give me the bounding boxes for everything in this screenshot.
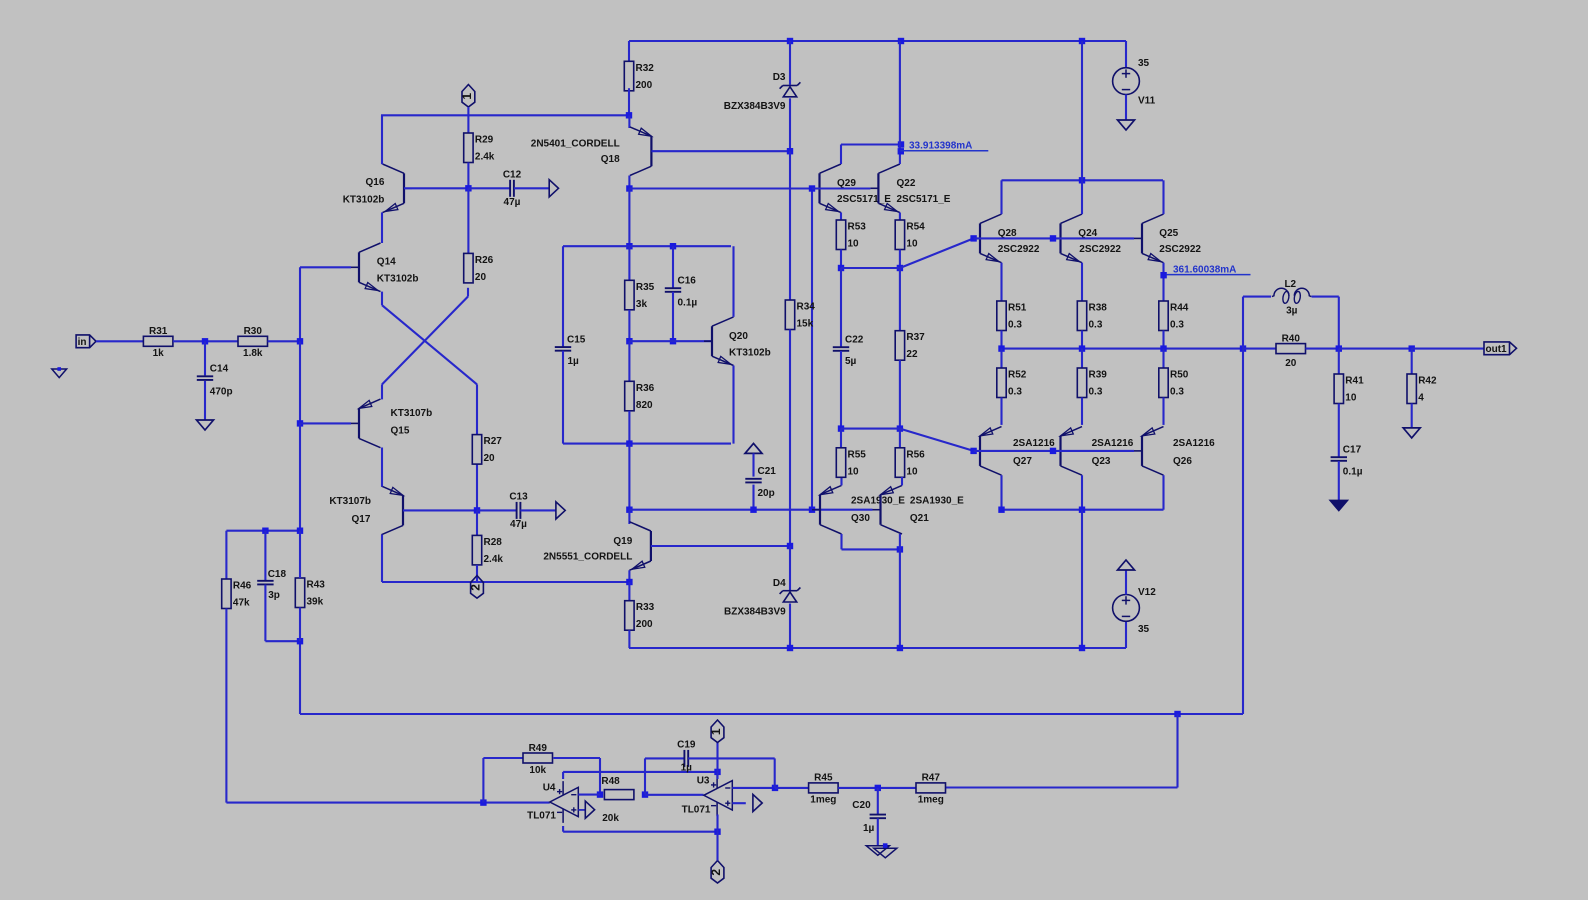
svg-text:47µ: 47µ xyxy=(504,197,521,208)
net flag 2 xyxy=(469,576,484,599)
zener diode D3 xyxy=(724,72,801,112)
node Q18 base / D3 xyxy=(787,148,793,154)
resistor R54 xyxy=(895,220,925,250)
wire R26 top xyxy=(467,188,469,253)
wire bottom row to Q19 xyxy=(382,581,629,583)
wire Q15 collector drop xyxy=(381,448,383,487)
current annotation anchor xyxy=(898,148,904,154)
svg-text:15k: 15k xyxy=(797,319,814,330)
svg-text:2SA1216: 2SA1216 xyxy=(1173,438,1215,449)
wire R41 top xyxy=(1338,349,1340,374)
wire Q14 emitter drop xyxy=(381,292,383,306)
svg-text:2: 2 xyxy=(469,584,483,591)
svg-text:Q20: Q20 xyxy=(729,331,748,342)
svg-text:R47: R47 xyxy=(922,773,941,784)
voltage source V11 xyxy=(1113,58,1156,107)
svg-text:Q14: Q14 xyxy=(377,257,396,268)
wire R36 bottom xyxy=(628,411,630,444)
svg-text:V11: V11 xyxy=(1138,96,1156,107)
wire R56 bottom to Q21 emitter xyxy=(901,477,903,485)
svg-text:200: 200 xyxy=(636,619,653,630)
svg-text:C18: C18 xyxy=(268,569,287,580)
wire Q17 collector drop xyxy=(381,535,383,582)
node C22 bottom xyxy=(838,425,844,431)
wire VAS drive upper xyxy=(629,187,812,189)
svg-text:1.8k: 1.8k xyxy=(243,348,263,359)
node U4 out / R49 xyxy=(480,799,486,805)
transistor Q16 xyxy=(343,164,412,213)
svg-text:2SA1216: 2SA1216 xyxy=(1013,438,1055,449)
wire flag2 stem xyxy=(716,832,718,861)
ground C20 b (offset duplicate) xyxy=(874,848,897,858)
wire R51 bottom xyxy=(1000,331,1002,349)
node Q17 base / C13 xyxy=(474,507,480,513)
wire C22-R37 link xyxy=(841,428,900,430)
wire Q29 collector riser xyxy=(840,145,842,165)
svg-text:2SC2922: 2SC2922 xyxy=(998,244,1040,255)
node input RC xyxy=(202,338,208,344)
wire xyxy=(173,340,238,342)
svg-text:R56: R56 xyxy=(906,449,925,460)
wire R44 bottom xyxy=(1162,331,1164,349)
svg-text:R46: R46 xyxy=(233,581,252,592)
node Q23 base xyxy=(1050,448,1056,454)
wire C12 left xyxy=(468,187,510,189)
resistor R43 xyxy=(295,578,325,608)
svg-text:Q23: Q23 xyxy=(1092,456,1111,467)
wire R40 right xyxy=(1306,348,1339,350)
svg-text:C16: C16 xyxy=(678,276,697,287)
svg-text:KT3107b: KT3107b xyxy=(329,496,371,507)
wire R34-D4 xyxy=(789,330,791,547)
wire C15 lower xyxy=(562,351,564,444)
svg-text:1k: 1k xyxy=(153,348,165,359)
wire Q30-Q21 collector link xyxy=(842,548,900,550)
svg-text:C22: C22 xyxy=(845,335,864,346)
wire R32 bottom xyxy=(628,88,630,115)
wire C19 left riser xyxy=(644,758,646,794)
wire Q29 collector horiz xyxy=(841,143,901,145)
resistor R46 xyxy=(222,579,252,609)
node Vbe bottom xyxy=(626,440,632,446)
svg-text:0.3: 0.3 xyxy=(1089,387,1103,398)
resistor R33 xyxy=(625,601,655,631)
node D3 top xyxy=(787,38,793,44)
transistor Q19 xyxy=(543,522,659,571)
svg-text:10: 10 xyxy=(1345,393,1357,404)
wire D3 to Q18 base node xyxy=(789,98,791,151)
wire V12 stem bottom xyxy=(1125,621,1127,648)
svg-text:R31: R31 xyxy=(149,326,168,337)
wire R39 top xyxy=(1081,349,1083,368)
resistor R41 xyxy=(1334,374,1364,404)
wire V+ row to flag1 xyxy=(563,771,717,773)
wire R28 bottom xyxy=(476,565,478,582)
svg-text:0.1µ: 0.1µ xyxy=(678,298,698,309)
wire L2 right xyxy=(1312,296,1339,298)
svg-text:361.60038mA: 361.60038mA xyxy=(1173,264,1236,275)
resistor R34 xyxy=(785,300,815,330)
wire R54 bottom xyxy=(899,250,901,269)
node Q27 base xyxy=(970,448,976,454)
svg-text:BZX384B3V9: BZX384B3V9 xyxy=(724,101,786,112)
wire output node rail xyxy=(1002,348,1244,350)
svg-text:10: 10 xyxy=(906,239,918,250)
voltage source V12 xyxy=(1113,587,1157,635)
svg-text:3k: 3k xyxy=(636,299,648,310)
wire drive diagonal to Q27 base xyxy=(900,429,974,451)
wire crossover right drop xyxy=(476,384,478,434)
resistor R50 xyxy=(1159,368,1189,398)
svg-text:1µ: 1µ xyxy=(863,823,875,834)
node Q19 emitter xyxy=(626,579,632,585)
wire R53-R54 link xyxy=(841,267,900,269)
wire crossover diagonal A xyxy=(382,305,477,384)
wire R32 top xyxy=(628,41,630,61)
svg-text:C14: C14 xyxy=(210,364,229,375)
junction (1001.5,348.6) xyxy=(998,345,1004,351)
wire V11 stem top xyxy=(1125,41,1127,68)
zener diode D4 xyxy=(724,578,800,618)
wire Q23 collector xyxy=(1081,475,1083,510)
svg-text:2: 2 xyxy=(709,869,723,876)
wire base rail lower bank xyxy=(974,450,1134,452)
svg-text:1: 1 xyxy=(460,93,474,100)
svg-text:2SA1930_E: 2SA1930_E xyxy=(910,496,964,507)
resistor R47 xyxy=(916,773,946,806)
wire output bank vplus xyxy=(1002,179,1164,181)
svg-text:R52: R52 xyxy=(1008,370,1027,381)
svg-text:47µ: 47µ xyxy=(510,519,527,530)
wire U3 V- drop xyxy=(716,815,718,832)
svg-text:R43: R43 xyxy=(307,580,326,591)
op-amp U4 xyxy=(550,781,586,823)
svg-text:1: 1 xyxy=(709,728,723,735)
capacitor C12 xyxy=(503,169,522,208)
wire U4 V+ riser xyxy=(562,772,564,779)
svg-text:Q16: Q16 xyxy=(365,177,384,188)
svg-text:470p: 470p xyxy=(210,387,233,398)
svg-text:out1: out1 xyxy=(1486,344,1508,355)
wire Q16 collector riser xyxy=(381,115,383,164)
wire U4 V- drop xyxy=(562,826,564,832)
wire base link Q29-Q22 xyxy=(812,187,870,189)
wire U3 +in flag stub xyxy=(732,802,746,804)
node R32/Q18 xyxy=(626,112,632,118)
node servo return xyxy=(1174,711,1180,717)
ground C21 (up) xyxy=(745,443,762,453)
wire R46 top stub xyxy=(225,531,227,579)
wire bottom vminus rail xyxy=(629,647,1126,649)
wire R52 top xyxy=(1000,349,1002,368)
wire R33 bottom xyxy=(628,630,630,648)
transistor Q14 xyxy=(351,243,418,292)
resistor R27 xyxy=(472,435,502,465)
wire Q20 collector xyxy=(732,246,734,317)
node R53/C22 xyxy=(838,265,844,271)
wire R43 top stub xyxy=(299,531,301,578)
wire Q18 base to D3 xyxy=(651,150,790,152)
svg-text:V12: V12 xyxy=(1138,587,1156,598)
wire C18 bottom stub xyxy=(264,585,266,642)
arrow net flag xyxy=(585,801,594,818)
svg-text:3p: 3p xyxy=(268,590,280,601)
node C18 top xyxy=(262,528,268,534)
node Q16 base / C12 xyxy=(465,185,471,191)
svg-text:10: 10 xyxy=(848,239,860,250)
wire C21 lower stem xyxy=(752,485,754,510)
svg-text:KT3102b: KT3102b xyxy=(377,273,419,284)
wire U4 +in flag stub xyxy=(578,809,585,811)
node Q24 base xyxy=(1050,235,1056,241)
ground C14 xyxy=(197,420,214,430)
node Q21 collector xyxy=(897,546,903,552)
svg-text:R50: R50 xyxy=(1170,370,1189,381)
wire R55 top xyxy=(840,429,842,448)
wire crossover diagonal B xyxy=(382,297,468,385)
wire C18 top stub xyxy=(264,531,266,581)
svg-text:R44: R44 xyxy=(1170,303,1189,314)
svg-text:L2: L2 xyxy=(1284,279,1296,290)
node Q18 collector xyxy=(626,185,632,191)
wire C19 left xyxy=(645,757,684,759)
svg-text:C13: C13 xyxy=(509,491,528,502)
svg-text:U3: U3 xyxy=(697,776,710,787)
net flag 2 xyxy=(709,861,724,884)
wire Q16/Q14 link xyxy=(381,212,383,243)
wire top vplus rail xyxy=(629,40,1126,42)
arrow net flag xyxy=(753,794,762,811)
wire to D4 xyxy=(789,546,791,590)
svg-text:R55: R55 xyxy=(848,449,867,460)
wire R48 to U3 apex xyxy=(645,794,704,796)
svg-text:C12: C12 xyxy=(503,169,522,180)
wire R41-C17 xyxy=(1338,404,1340,458)
current annotation 33.913398mA xyxy=(900,140,988,151)
svg-text:R32: R32 xyxy=(636,63,655,74)
resistor R45 xyxy=(809,773,839,806)
wire VAS column to Vbe top xyxy=(628,189,630,247)
resistor R26 xyxy=(464,253,494,283)
wire C14 stem top xyxy=(204,341,206,375)
wire Q27 collector xyxy=(1000,475,1002,510)
node Q28 base xyxy=(970,235,976,241)
wire V12 stem top xyxy=(1125,570,1127,595)
svg-text:10: 10 xyxy=(848,466,860,477)
resistor R31 xyxy=(143,326,173,359)
transistor Q24 xyxy=(1053,214,1122,263)
svg-text:R36: R36 xyxy=(636,383,655,394)
node V- net2 xyxy=(714,829,720,835)
node fb-input xyxy=(297,338,303,344)
capacitor C19 xyxy=(677,739,696,773)
node R43 bottom xyxy=(297,638,303,644)
resistor R32 xyxy=(624,61,654,91)
wire flag1 stem to U3 V+ xyxy=(716,742,718,772)
transistor Q15 xyxy=(351,399,432,448)
wire Q19 emitter stub xyxy=(628,570,630,582)
wire C19 right xyxy=(688,757,775,759)
resistor R53 xyxy=(836,220,866,250)
transistor Q18 xyxy=(531,127,660,176)
wire rail drop from top xyxy=(1081,41,1083,180)
resistor R42 xyxy=(1407,374,1437,404)
resistor R51 xyxy=(997,301,1027,331)
svg-text:0.3: 0.3 xyxy=(1008,320,1022,331)
wire C17 bottom xyxy=(1338,461,1340,501)
wire R52 bottom xyxy=(1000,398,1002,425)
node R37 bottom xyxy=(897,425,903,431)
capacitor C16 xyxy=(665,276,698,309)
transistor Q17 xyxy=(329,486,411,535)
node C16 top xyxy=(670,243,676,249)
svg-text:20: 20 xyxy=(1285,358,1297,369)
svg-text:R54: R54 xyxy=(906,222,925,233)
wire C13 left xyxy=(477,509,517,511)
wire R27 bottom xyxy=(476,462,478,511)
wire Q28 collector xyxy=(1000,180,1002,214)
resistor R29 xyxy=(464,133,495,163)
svg-text:Q21: Q21 xyxy=(910,513,929,524)
wire U4 inv input to R49/R48 node xyxy=(578,794,600,796)
svg-text:20: 20 xyxy=(484,453,496,464)
transistor Q26 xyxy=(1134,427,1215,476)
svg-text:R37: R37 xyxy=(906,332,925,343)
svg-text:R29: R29 xyxy=(475,135,494,146)
svg-text:Q19: Q19 xyxy=(613,536,632,547)
wire base link Q30-Q21 xyxy=(812,509,873,511)
wire L2 left riser xyxy=(1242,297,1244,349)
svg-text:2SC2922: 2SC2922 xyxy=(1079,244,1121,255)
wire R29 bottom xyxy=(467,163,469,189)
svg-text:2N5401_CORDELL: 2N5401_CORDELL xyxy=(531,138,620,149)
svg-text:R49: R49 xyxy=(529,743,548,754)
ground flag small near input xyxy=(52,367,67,377)
wire Q22 collector riser xyxy=(899,41,901,164)
wire fb column upper xyxy=(299,267,301,341)
svg-text:R33: R33 xyxy=(636,602,655,613)
wire fb column R43 bottom to 714 xyxy=(299,641,301,714)
resistor R48 xyxy=(601,776,634,824)
wire C13 right xyxy=(520,509,556,511)
svg-text:KT3102b: KT3102b xyxy=(729,348,771,359)
svg-text:2SC5171_E: 2SC5171_E xyxy=(897,194,951,205)
svg-text:820: 820 xyxy=(636,400,653,411)
svg-text:Q17: Q17 xyxy=(351,514,370,525)
transistor Q28 xyxy=(972,214,1040,263)
wire driver base column xyxy=(811,189,813,510)
svg-text:R40: R40 xyxy=(1282,333,1301,344)
wire Q24 collector xyxy=(1081,180,1083,214)
wire Q16 base xyxy=(404,187,468,189)
svg-text:2SC2922: 2SC2922 xyxy=(1159,244,1201,255)
node vminus rail xyxy=(1079,645,1085,651)
svg-text:4: 4 xyxy=(1418,393,1424,404)
svg-text:R45: R45 xyxy=(814,773,833,784)
svg-text:R34: R34 xyxy=(797,302,816,313)
svg-text:10k: 10k xyxy=(529,765,546,776)
node driver bases xyxy=(809,185,815,191)
ground C17 xyxy=(1330,501,1347,511)
svg-text:0.3: 0.3 xyxy=(1089,320,1103,331)
svg-text:TL071: TL071 xyxy=(682,805,711,816)
svg-text:2.4k: 2.4k xyxy=(475,152,495,163)
wire R35 top stub xyxy=(628,246,630,280)
node V+ net1 xyxy=(714,769,720,775)
wire Q25 emitter xyxy=(1162,263,1164,301)
wire VAS drive lower xyxy=(629,509,812,511)
current annotation 361.60038mA xyxy=(1166,264,1250,275)
wire R46 bottom long xyxy=(225,609,227,803)
svg-text:KT3102b: KT3102b xyxy=(343,194,385,205)
node R48/U3 out xyxy=(642,791,648,797)
wire C19 right riser xyxy=(774,758,776,788)
wire vminus bank rail xyxy=(1002,509,1164,511)
inductor L2 xyxy=(1272,279,1311,316)
resistor R37 xyxy=(895,331,925,361)
svg-text:C20: C20 xyxy=(852,800,871,811)
svg-text:2SA1216: 2SA1216 xyxy=(1092,438,1134,449)
svg-text:in: in xyxy=(78,337,87,348)
svg-text:BZX384B3V9: BZX384B3V9 xyxy=(724,607,786,618)
node Q19 collector / C13 drive xyxy=(626,507,632,513)
wire Q26 collector xyxy=(1162,475,1164,510)
svg-text:Q27: Q27 xyxy=(1013,456,1032,467)
wire base rail upper bank xyxy=(974,237,1134,239)
resistor R49 xyxy=(523,743,553,776)
wire Q24 emitter xyxy=(1081,263,1083,301)
svg-text:KT3107b: KT3107b xyxy=(391,408,433,419)
wire xyxy=(96,340,143,342)
node U4 inv input xyxy=(597,791,603,797)
wire Q14 base xyxy=(300,266,351,268)
wire D3 top xyxy=(789,41,791,85)
svg-text:R42: R42 xyxy=(1418,376,1437,387)
svg-text:2SC5171_E: 2SC5171_E xyxy=(837,194,891,205)
svg-text:Q26: Q26 xyxy=(1173,456,1192,467)
wire feedback long horizontal xyxy=(300,713,1243,715)
svg-text:Q29: Q29 xyxy=(837,178,856,189)
wire R49 riser xyxy=(482,758,484,803)
wire R36 top xyxy=(628,341,630,381)
node Q20 base xyxy=(626,338,632,344)
op-amp U3 xyxy=(704,774,740,816)
svg-text:1µ: 1µ xyxy=(568,356,580,367)
wire C21 upper stem xyxy=(752,453,754,476)
wire Q19 collector stub xyxy=(628,510,630,524)
wire R56 top xyxy=(899,429,901,448)
node R43 top xyxy=(297,528,303,534)
svg-text:R41: R41 xyxy=(1345,376,1364,387)
svg-text:R39: R39 xyxy=(1089,370,1108,381)
resistor R56 xyxy=(895,448,925,478)
svg-text:Q15: Q15 xyxy=(391,426,410,437)
wire R37 bottom xyxy=(899,360,901,428)
arrow net flag xyxy=(556,502,565,519)
capacitor C18 xyxy=(257,569,286,601)
wire L2 right riser xyxy=(1338,297,1340,349)
svg-text:R53: R53 xyxy=(848,222,867,233)
svg-text:R26: R26 xyxy=(475,255,494,266)
wire Q20 base xyxy=(629,340,712,342)
wire crossover left drop xyxy=(381,384,383,399)
wire R26 bottom stub xyxy=(467,288,469,297)
svg-text:1µ: 1µ xyxy=(681,763,693,774)
resistor R52 xyxy=(997,368,1027,398)
wire U4 output row xyxy=(226,802,549,804)
transistor Q29 xyxy=(812,164,892,213)
transistor Q27 xyxy=(972,427,1055,476)
